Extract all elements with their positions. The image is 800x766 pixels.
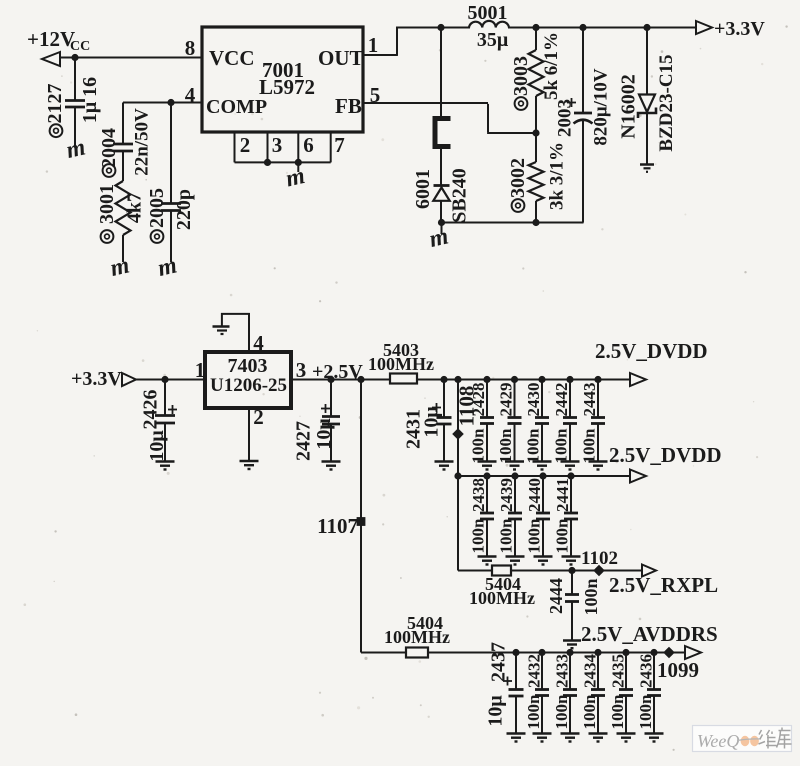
- label 2442 designator: [552, 383, 571, 417]
- label 2427 designator: [293, 421, 315, 461]
- wire bottom ground bus: [442, 222, 584, 224]
- plus mark C2426: [168, 405, 177, 414]
- label 5001: [468, 2, 508, 24]
- capacitor C2441 100n: [564, 476, 578, 556]
- label 2429 designator: [497, 383, 516, 417]
- node rail1 C2429: [511, 376, 518, 383]
- ground above U7403: [213, 327, 230, 335]
- ground below C2430: [533, 462, 552, 470]
- svg-text:220p: 220p: [173, 189, 195, 230]
- wire 1107 vertical drop: [360, 380, 362, 653]
- label 2005 designator: [146, 188, 168, 243]
- svg-text:2: 2: [240, 133, 251, 157]
- svg-text:100n: 100n: [580, 694, 599, 730]
- label 100MHz FB5404b: [384, 627, 450, 647]
- svg-text:m: m: [427, 223, 451, 253]
- svg-text:2444: 2444: [546, 578, 566, 614]
- svg-text:100MHz: 100MHz: [384, 627, 450, 647]
- arrow RXPL rail: [642, 565, 656, 577]
- pin 6 stub: [297, 132, 299, 162]
- label N16002 designator: [618, 74, 640, 138]
- net label +2.5V: [312, 361, 363, 383]
- label 100n value C2435: [608, 694, 627, 730]
- svg-text:22n/50V: 22n/50V: [132, 108, 153, 176]
- pin 8 label: [185, 36, 196, 60]
- label 100n value C2443: [580, 428, 599, 464]
- node C2003 top: [579, 24, 586, 31]
- label 2430 designator: [524, 383, 543, 417]
- svg-text:100n: 100n: [497, 518, 516, 554]
- ground below C2441: [562, 557, 581, 565]
- wire top 3.3V rail right: [508, 27, 695, 29]
- capacitor C2426 10u: [155, 380, 175, 462]
- label 2436 designator: [637, 654, 656, 688]
- ground below C2427: [322, 462, 341, 470]
- svg-text:2438: 2438: [469, 478, 488, 512]
- label 2441 designator: [553, 478, 572, 512]
- IC U7403 U1206-25 body: [205, 352, 291, 408]
- svg-text:4: 4: [253, 331, 264, 355]
- label 10u value C2437: [485, 695, 507, 727]
- pin 5 label: [370, 83, 381, 107]
- svg-text:10μ: 10μ: [146, 430, 168, 462]
- svg-text:m: m: [155, 252, 179, 282]
- capacitor C2004 22n/50V: [113, 103, 133, 182]
- node rail2 C2440: [539, 472, 546, 479]
- pin 2 stub: [234, 132, 236, 162]
- wire 3.3V to pin 1: [136, 379, 205, 381]
- node FB divider tap: [532, 129, 539, 136]
- IC U7001 L5972 body: [202, 27, 363, 132]
- wire pin 4 to ground: [221, 313, 250, 352]
- label 100n value C2444: [581, 578, 601, 615]
- net label +3.3V input: [71, 368, 122, 390]
- ground below C2435: [617, 734, 636, 742]
- label 2435 designator: [609, 654, 628, 688]
- svg-text:10μ: 10μ: [485, 695, 507, 727]
- label 2444 designator: [546, 578, 566, 614]
- label 5404 a: [485, 574, 521, 594]
- node rail1 C2428: [483, 376, 490, 383]
- label 3003 designator: [510, 56, 532, 110]
- node A junction 12V/C2127: [71, 54, 78, 61]
- svg-text:1107: 1107: [317, 514, 358, 538]
- capacitor C2005 220p: [161, 103, 181, 263]
- watermark WeeQoo box: [693, 726, 792, 752]
- svg-text:100n: 100n: [496, 428, 515, 464]
- net label +12Vcc: [27, 27, 90, 54]
- svg-text:3002: 3002: [507, 158, 529, 198]
- node rail2 C2441: [567, 472, 574, 479]
- svg-text:2442: 2442: [552, 383, 571, 417]
- label 22n/50V value: [132, 108, 153, 176]
- pin 3 label U7403: [296, 358, 307, 382]
- svg-text:BZD23-C15: BZD23-C15: [656, 54, 677, 151]
- wire pin 2 to ground: [248, 408, 250, 460]
- svg-text:2003: 2003: [555, 99, 576, 137]
- node 1102: [593, 565, 605, 577]
- label 100MHz FB5404a: [469, 588, 535, 608]
- ground below C2127: [64, 134, 88, 164]
- svg-text:2.5V_RXPL: 2.5V_RXPL: [609, 573, 718, 597]
- svg-text:CC: CC: [70, 39, 90, 54]
- svg-text:1: 1: [368, 33, 379, 57]
- label 10u value C2426: [146, 430, 168, 462]
- IC U7403 texts: [210, 355, 287, 396]
- svg-text:7403: 7403: [228, 355, 268, 377]
- svg-text:100MHz: 100MHz: [368, 354, 434, 374]
- label 10u value C2431: [421, 406, 443, 438]
- wire top 3.3V rail left: [396, 27, 470, 29]
- wire 1108 to RXPL rail: [457, 476, 459, 571]
- svg-text:2427: 2427: [293, 421, 315, 461]
- capacitor C2003 820u/10V: [574, 28, 593, 223]
- svg-text:+12V: +12V: [27, 27, 75, 51]
- svg-text:2426: 2426: [140, 390, 162, 430]
- wire RXPL rail left: [458, 570, 492, 572]
- capacitor C2437 10u: [509, 653, 524, 734]
- ground below C2431: [435, 462, 454, 470]
- wire AVDDRS rail right: [428, 652, 685, 654]
- plus mark C2427: [321, 404, 330, 413]
- node rail1 1108: [454, 376, 461, 383]
- label 3002 designator: [507, 158, 529, 212]
- svg-text:100n: 100n: [525, 518, 544, 554]
- net label 2.5V_DVDD rail 2: [609, 443, 722, 467]
- ground below C2438: [478, 557, 497, 565]
- svg-text:2434: 2434: [581, 654, 600, 689]
- svg-text:1099: 1099: [657, 658, 699, 682]
- label 1099: [657, 658, 699, 682]
- svg-text:100n: 100n: [581, 578, 601, 615]
- svg-text:SB240: SB240: [449, 168, 471, 222]
- wire OUT pin 1: [363, 27, 397, 56]
- svg-text:+3.3V: +3.3V: [714, 18, 765, 40]
- svg-text:2432: 2432: [525, 654, 544, 688]
- svg-text:3: 3: [296, 358, 307, 382]
- ground below C2437: [507, 734, 526, 742]
- svg-text:100n: 100n: [552, 694, 571, 730]
- node rail1 C2431: [440, 376, 447, 383]
- node rail4 C2437: [512, 649, 519, 656]
- svg-text:2433: 2433: [553, 654, 572, 688]
- pin 2 label U7403: [253, 405, 264, 429]
- wire 2.5V DVDD rail 1: [417, 379, 630, 381]
- capacitor C2432 100n: [535, 653, 549, 734]
- svg-text:2.5V_DVDD: 2.5V_DVDD: [609, 443, 722, 467]
- capacitor C2428 100n: [480, 380, 494, 462]
- label 100n value C2436: [636, 694, 655, 730]
- label SB240 value: [449, 168, 471, 222]
- capacitor C2127 1u/16: [65, 58, 85, 148]
- capacitor C2433 100n: [563, 653, 577, 734]
- svg-text:100n: 100n: [524, 694, 543, 730]
- wire FB pin 5: [363, 103, 536, 133]
- svg-text:2428: 2428: [469, 383, 488, 417]
- diode D6001 SB240: [433, 186, 449, 223]
- svg-text:100n: 100n: [580, 428, 599, 464]
- svg-text:100n: 100n: [469, 518, 488, 554]
- label 100n value C2440: [525, 518, 544, 554]
- arrow rail 2: [630, 470, 646, 483]
- label 100n value C2428: [469, 428, 488, 464]
- label 4k7 value: [124, 192, 146, 223]
- svg-text:100n: 100n: [552, 428, 571, 464]
- svg-text:3001: 3001: [96, 184, 118, 224]
- node rail4 C2433: [566, 649, 573, 656]
- svg-text:+3.3V: +3.3V: [71, 368, 122, 390]
- IC U7001 texts: [206, 46, 364, 118]
- node rail1 C2430: [538, 376, 545, 383]
- svg-text:6: 6: [303, 133, 314, 157]
- net label 2.5V_RXPL: [609, 573, 718, 597]
- node 1107: [357, 517, 366, 526]
- capacitor C2436 100n: [647, 653, 661, 734]
- label 2428 designator: [469, 383, 488, 417]
- svg-text:3k 3/1%: 3k 3/1%: [547, 142, 568, 210]
- capacitor C2427 10u: [322, 380, 340, 462]
- svg-text:3003: 3003: [510, 56, 532, 96]
- svg-text:2127: 2127: [44, 84, 66, 124]
- ground below C2444: [563, 641, 581, 649]
- node rail2 1108 line: [454, 472, 461, 479]
- label 100n value C2430: [524, 428, 543, 464]
- ground below C2433: [561, 734, 580, 742]
- node rail4 C2436: [650, 649, 657, 656]
- inductor L5001 35u: [469, 21, 509, 28]
- capacitor C2431 10u: [437, 380, 452, 462]
- capacitor C2442 100n: [563, 380, 577, 462]
- label 2003 designator: [555, 99, 576, 137]
- node 1107 branch junction: [357, 376, 364, 383]
- label 2431 designator: [403, 409, 425, 449]
- input arrow +12Vcc: [42, 52, 60, 66]
- capacitor C2438 100n: [480, 476, 494, 556]
- plus mark C2003: [567, 98, 576, 107]
- label 2004 designator: [98, 128, 120, 177]
- wire bracket to diode: [440, 147, 442, 186]
- label BZD23-C15 value: [656, 54, 677, 151]
- svg-text:100n: 100n: [469, 428, 488, 464]
- label 5403: [383, 340, 419, 360]
- label 2127 designator: [44, 84, 66, 138]
- label 100n value C2438: [469, 518, 488, 554]
- capacitor C2435 100n: [619, 653, 633, 734]
- node switch-node: [437, 24, 444, 31]
- input arrow +3.3V: [122, 373, 136, 386]
- ground below C2432: [533, 734, 552, 742]
- label 1107: [317, 514, 358, 538]
- ground below C2440: [534, 557, 553, 565]
- label 5404 b: [407, 613, 443, 633]
- wire COMP pin 4: [123, 102, 202, 104]
- node rail4 C2434: [594, 649, 601, 656]
- ground below D6001: [427, 223, 451, 253]
- ground below C2436: [645, 734, 664, 742]
- wire 1108 vertical: [457, 380, 459, 477]
- svg-text:N16002: N16002: [618, 74, 640, 138]
- label 2440 designator: [525, 478, 544, 512]
- svg-text:4k7: 4k7: [124, 192, 146, 223]
- wire pin6 to ground: [297, 162, 299, 172]
- label 2434 designator: [581, 654, 600, 689]
- ground below C2429: [505, 462, 524, 470]
- ground below C2442: [561, 462, 580, 470]
- svg-text:2429: 2429: [497, 383, 516, 417]
- node zener top: [643, 24, 650, 31]
- svg-text:100n: 100n: [553, 518, 572, 554]
- ground below zener: [640, 165, 654, 172]
- svg-text:U1206-25: U1206-25: [210, 375, 287, 396]
- ground below R3001: [108, 252, 132, 282]
- label 100n value C2429: [496, 428, 515, 464]
- svg-text:100n: 100n: [608, 694, 627, 730]
- label 1108: [455, 386, 479, 427]
- label 2439 designator: [497, 478, 516, 512]
- node rail4 C2432: [538, 649, 545, 656]
- capacitor C2434 100n: [591, 653, 605, 734]
- pin 1 label U7403: [195, 358, 206, 382]
- resistor R3001 4k7: [116, 181, 131, 235]
- wire R3001 to ground: [122, 235, 124, 262]
- node rail2 C2439: [511, 472, 518, 479]
- label 1u 16 value: [79, 77, 101, 123]
- svg-text:2005: 2005: [146, 188, 168, 228]
- capacitor C2430 100n: [535, 380, 549, 462]
- pin 4 label U7403: [253, 331, 264, 355]
- wire 2.5V DVDD rail 2: [458, 475, 630, 477]
- capacitor C2443 100n: [591, 380, 605, 462]
- label 1102: [581, 548, 618, 569]
- label 100n value C2442: [552, 428, 571, 464]
- svg-text:2443: 2443: [580, 383, 599, 417]
- label 10u value C2427: [313, 418, 335, 450]
- zener D N16002 BZD23-C15: [638, 28, 656, 165]
- svg-text:100n: 100n: [524, 428, 543, 464]
- svg-text:10μ: 10μ: [421, 406, 443, 438]
- svg-text:1μ 16: 1μ 16: [79, 77, 101, 123]
- svg-text:100n: 100n: [636, 694, 655, 730]
- node rail3 C2444: [568, 567, 575, 574]
- label 2438 designator: [469, 478, 488, 512]
- svg-text:7: 7: [334, 133, 345, 157]
- pin 3 stub: [267, 132, 269, 162]
- node 1108: [452, 428, 464, 440]
- node COMP junction: [167, 99, 174, 106]
- plus mark C2437: [503, 677, 512, 686]
- resistor R3003 5k6: [529, 27, 544, 133]
- label 3001 designator: [96, 184, 118, 243]
- arrow AVDDRS rail: [685, 646, 701, 659]
- pin 4 label: [185, 83, 196, 107]
- svg-text:2439: 2439: [497, 478, 516, 512]
- node R3002 bottom: [532, 219, 539, 226]
- node 1099: [663, 647, 675, 659]
- svg-text:m: m: [64, 134, 88, 164]
- label 100n value C2432: [524, 694, 543, 730]
- label 220p value: [173, 189, 195, 230]
- node pin3 gnd: [264, 159, 271, 166]
- output arrow +3.3V: [696, 21, 712, 34]
- arrow rail 1: [630, 373, 646, 386]
- node rail1 C2442: [566, 376, 573, 383]
- svg-text:L5972: L5972: [259, 75, 315, 99]
- node C2426 junction: [161, 376, 168, 383]
- svg-text:m: m: [108, 252, 132, 282]
- svg-text:10μ: 10μ: [313, 418, 335, 450]
- svg-text:WeeQ: WeeQ: [697, 731, 739, 751]
- svg-text:2435: 2435: [609, 654, 628, 688]
- ground below U7403: [240, 461, 259, 469]
- ground below C2426: [156, 462, 175, 470]
- svg-text:2441: 2441: [553, 478, 572, 512]
- ferrite bead FB5404a: [492, 566, 511, 576]
- label 820u/10V value: [591, 68, 612, 146]
- ferrite bead FB5403: [390, 374, 417, 384]
- capacitor C2444 100n: [565, 571, 579, 641]
- svg-text:100MHz: 100MHz: [469, 588, 535, 608]
- wire RXPL rail right: [511, 570, 642, 572]
- node rail4 C2435: [622, 649, 629, 656]
- svg-text:2004: 2004: [98, 128, 120, 168]
- svg-text:5001: 5001: [468, 2, 508, 24]
- wire switch-node down: [440, 28, 442, 117]
- label 100n value C2441: [553, 518, 572, 554]
- svg-text:2: 2: [253, 405, 264, 429]
- label 2443 designator: [580, 383, 599, 417]
- ferrite bead FB5404b: [406, 648, 428, 658]
- jumper bracket 6001 link: [435, 119, 451, 147]
- pin 1 label: [368, 33, 379, 57]
- label 100n value C2433: [552, 694, 571, 730]
- capacitor C2440 100n: [536, 476, 550, 556]
- net label +3.3V top: [714, 18, 765, 40]
- label 100n value C2434: [580, 694, 599, 730]
- label 2433 designator: [553, 654, 572, 688]
- svg-text:2430: 2430: [524, 383, 543, 417]
- svg-text:1102: 1102: [581, 548, 618, 569]
- capacitor C2429 100n: [508, 380, 522, 462]
- node rail1 C2443: [594, 376, 601, 383]
- net label 2.5V_AVDDRS: [581, 622, 718, 646]
- svg-text:OUT: OUT: [318, 46, 364, 70]
- svg-text:m: m: [283, 163, 307, 193]
- wire AVDDRS rail left: [361, 652, 406, 654]
- svg-text:820μ/10V: 820μ/10V: [591, 68, 612, 146]
- wire diode node to ground: [441, 223, 443, 235]
- label 5k6 value: [541, 32, 562, 100]
- svg-text:35μ: 35μ: [477, 29, 509, 51]
- svg-text:+2.5V: +2.5V: [312, 361, 363, 383]
- node C2427 junction: [327, 376, 334, 383]
- plus mark C2431: [432, 403, 441, 412]
- label 35u: [477, 29, 509, 51]
- label 100n value C2439: [497, 518, 516, 554]
- svg-text:6001: 6001: [412, 169, 434, 209]
- resistor R3002 3k3: [529, 133, 544, 223]
- label 3k3 value: [547, 142, 568, 210]
- svg-text:2.5V_AVDDRS: 2.5V_AVDDRS: [581, 622, 718, 646]
- svg-text:8: 8: [185, 36, 196, 60]
- node rail2 C2438: [483, 472, 490, 479]
- label 2437 designator: [488, 642, 510, 682]
- node diode-gnd junction: [438, 219, 445, 226]
- node pin6 gnd: [295, 159, 302, 166]
- ground below C2434: [589, 734, 608, 742]
- net label 2.5V_DVDD rail 1: [595, 339, 708, 363]
- node R3003 top: [532, 24, 539, 31]
- capacitor C2439 100n: [508, 476, 522, 556]
